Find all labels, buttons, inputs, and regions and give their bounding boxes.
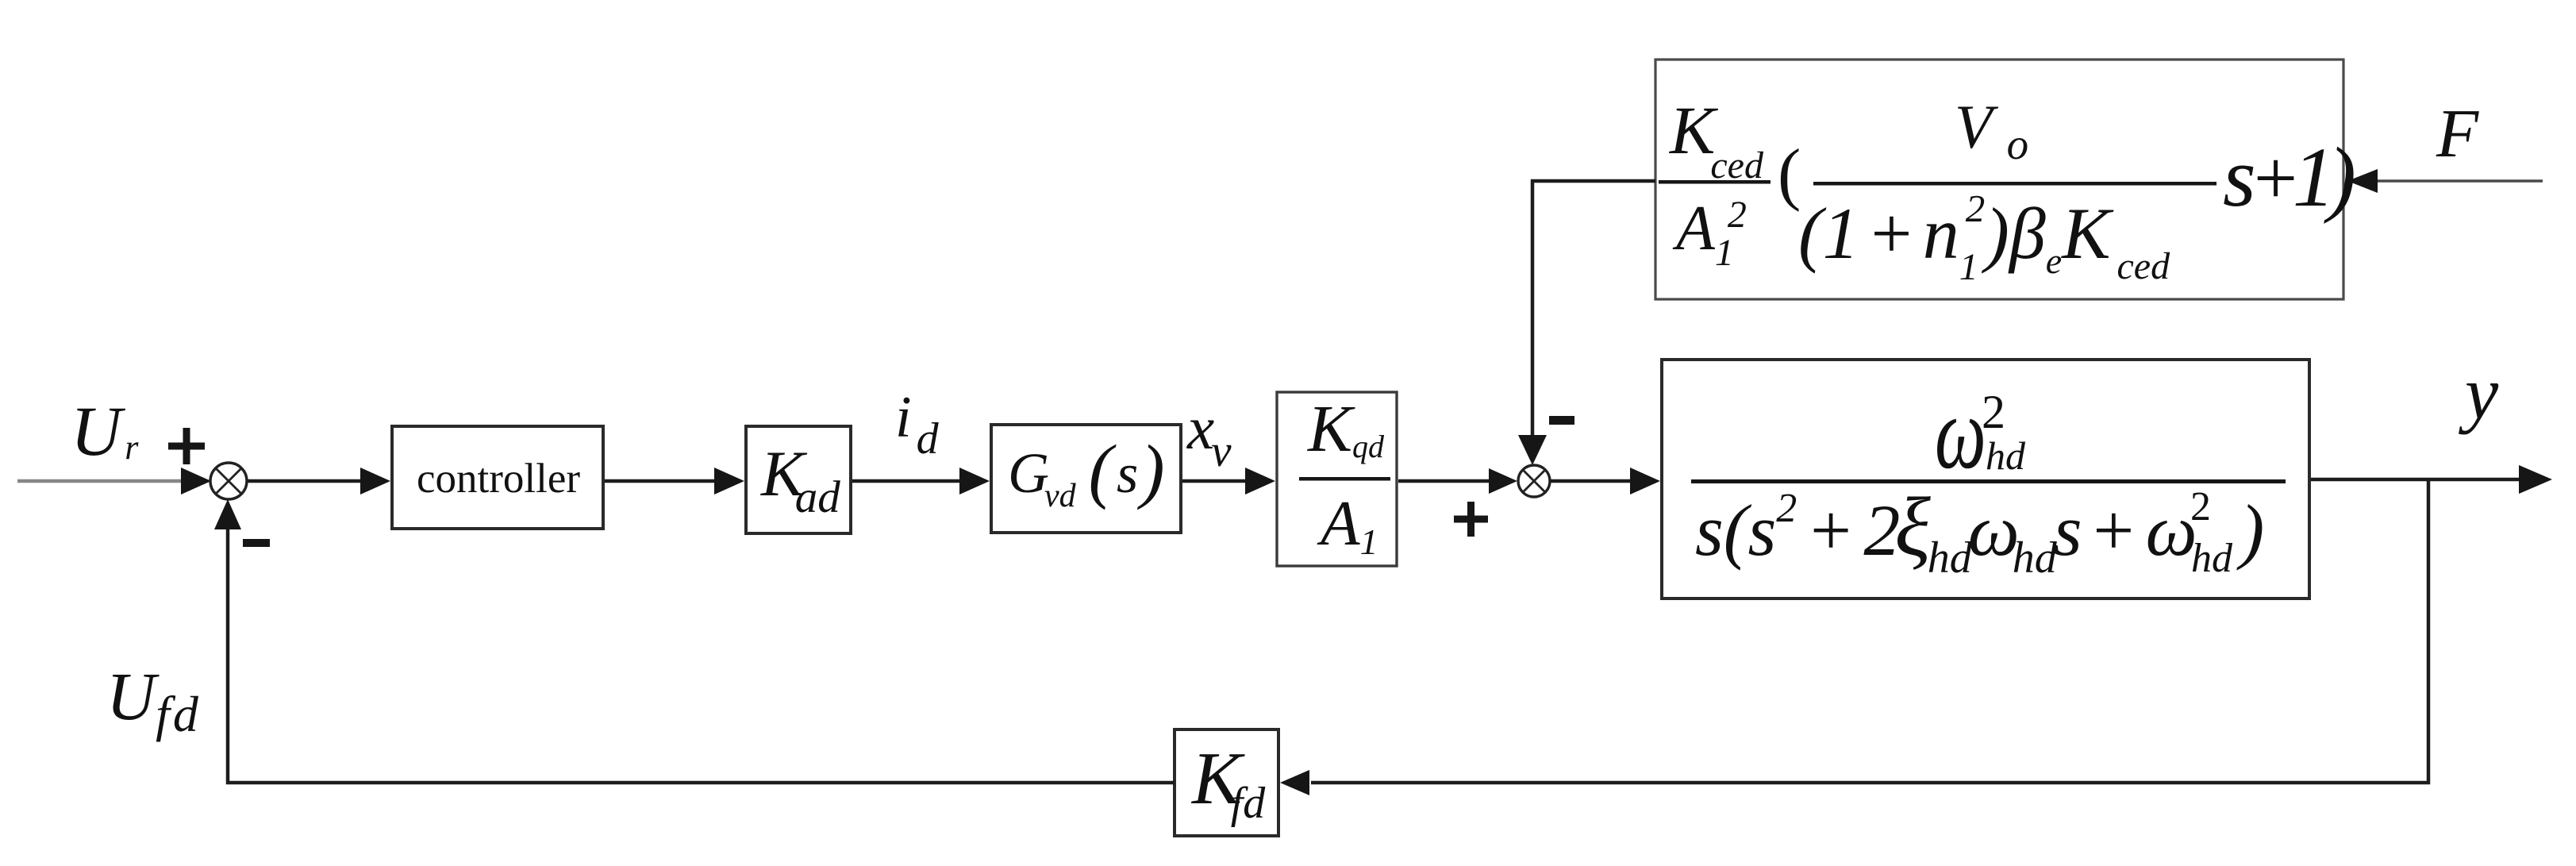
superscript 2 of plant numerator (1982, 388, 2005, 436)
block: K_ad box (746, 426, 851, 533)
denominator of plant (1695, 494, 2264, 567)
block: G_vd(s) box (991, 425, 1181, 533)
superscript 2 of last omega in plant denominator (2190, 487, 2211, 528)
block: plant transfer function box (1662, 360, 2309, 599)
wire: top block exit left (1531, 179, 1655, 183)
label x_v (1187, 398, 1232, 459)
subscript hd of last omega in plant denominator (2191, 538, 2232, 579)
wire: G_vd to K_qd/A1 with label x_v (1182, 468, 1275, 495)
block: K_fd box (1175, 729, 1278, 836)
wire: F input into top block (2347, 169, 2543, 193)
block: K_qd/A1 box (1277, 392, 1397, 566)
wire: controller to K_ad (605, 468, 744, 495)
minus sign at sum2 top input (1549, 416, 1574, 425)
wire: feedback up into sum1 (214, 499, 241, 784)
label K_ad (761, 441, 840, 506)
plus sign at sum2 input (1454, 502, 1488, 537)
label y output (2465, 356, 2498, 431)
fraction bar of plant formula (1691, 479, 2286, 483)
block: top disturbance transfer function box (1655, 60, 2343, 299)
summing junction sum1 (210, 463, 247, 499)
wire: sum2 to plant block (1550, 468, 1660, 495)
wire: output branch down (2427, 479, 2431, 784)
label F input (2436, 98, 2478, 167)
wire: K_qd/A1 to sum2 (1398, 468, 1517, 494)
wire: K_fd left segment (226, 781, 1175, 785)
label U_fd (106, 662, 202, 730)
label controller (417, 458, 580, 500)
wire: feedback right segment into K_fd (1280, 770, 2430, 795)
fraction bar V_o/(...) in top block (1813, 182, 2217, 186)
top block: big open paren (1778, 140, 1801, 210)
wire: input U_r line (17, 468, 211, 495)
top block: K_ced numerator (1670, 96, 1763, 166)
label U_r (71, 397, 138, 468)
wire: K_ad to G_vd with label i_d (852, 468, 990, 495)
plus sign at sum1 input (168, 428, 205, 464)
label K_qd numerator (1308, 396, 1384, 463)
label A_1 denominator (1321, 491, 1378, 556)
label i_d (895, 388, 939, 447)
fraction bar of K_qd/A1 (1299, 477, 1390, 481)
top block: V_o numerator (1955, 96, 2028, 158)
wire: plant to output y with branch node (2311, 465, 2552, 494)
minus sign at sum1 feedback input (243, 539, 270, 547)
block: controller box (392, 426, 603, 529)
top block: s + 1) tail (2223, 136, 2356, 221)
label K_fd (1192, 741, 1265, 816)
label G_vd(s) (1008, 445, 1165, 502)
top block: (1+n_1^2)beta_e K_ced denominator (1798, 197, 2170, 270)
wire: sum1 to controller (247, 468, 390, 495)
top block: A_1^2 denominator (1676, 197, 1747, 260)
fraction bar K_ced/A1^2 in top block (1659, 180, 1771, 184)
summing junction sum2 (1518, 465, 1550, 497)
label omega numerator of plant (1935, 381, 1986, 485)
subscript hd of plant numerator (1986, 436, 2025, 475)
wire: down from top block into sum2 (1518, 179, 1547, 465)
